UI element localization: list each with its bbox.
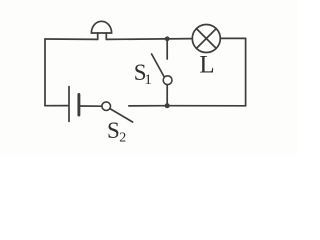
node: S1 top junction dot bbox=[165, 36, 170, 41]
wire top: lamp to right corner bbox=[220, 37, 245, 39]
lamp X diagonal 1 bbox=[196, 29, 216, 49]
switch S1 top lead bbox=[166, 39, 168, 59]
svg-text:S1: S1 bbox=[134, 60, 152, 88]
svg-text:L: L bbox=[199, 52, 214, 79]
lamp X diagonal 2 bbox=[196, 29, 216, 49]
svg-text:S2: S2 bbox=[107, 118, 126, 146]
lamp L circle bbox=[192, 25, 220, 53]
bell neck left leg bbox=[97, 33, 99, 39]
bell neck right leg bbox=[105, 33, 107, 39]
switch S1 blade bbox=[152, 54, 164, 76]
wire bottom: S2 circle to battery bbox=[80, 105, 102, 107]
wire top: left corner to bell bbox=[45, 38, 98, 40]
switch S1 hinge circle bbox=[163, 76, 172, 85]
switch S2 hinge circle bbox=[102, 102, 111, 111]
battery long plate (+) bbox=[68, 87, 70, 122]
wire bottom: right corner to S1 node bbox=[167, 105, 245, 107]
wire bottom: S1 node to S2 right terminal bbox=[129, 105, 167, 107]
switch S1 bottom lead bbox=[166, 85, 168, 106]
wire right vertical bbox=[245, 38, 247, 105]
wire bottom: battery to left corner bbox=[45, 105, 68, 107]
bell B dome bbox=[91, 21, 111, 33]
node: S1 bottom junction dot bbox=[165, 103, 170, 108]
wire top: bell to lamp bbox=[106, 38, 192, 41]
battery short thick plate (-) bbox=[77, 95, 80, 116]
switch S2 blade bbox=[110, 109, 133, 122]
wire left vertical bbox=[44, 39, 46, 106]
